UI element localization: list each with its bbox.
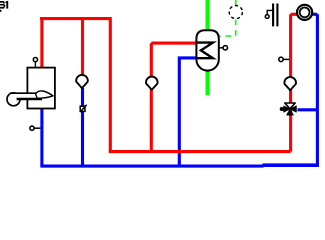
return pipe: from tank coil [179, 58, 196, 166]
pump P2 [146, 77, 158, 90]
boiler top sensor [34, 62, 36, 68]
mixing valve: top port (hollow triangle) [285, 103, 295, 109]
supply pipe: drop to boiler [40, 19, 43, 68]
return pipe: from pump P1 through check valve [81, 88, 84, 166]
cold/fresh water pipe: out of tank bottom (green) [206, 71, 210, 95]
room wall symbol [272, 4, 274, 27]
supply pipe: bottom header [109, 150, 291, 153]
burner flame [36, 91, 53, 98]
burner tube (dark bar) [17, 98, 42, 101]
room sensor [267, 10, 272, 14]
mixing valve: bottom port [287, 109, 294, 115]
supply pipe: riser through pump P2 [150, 43, 153, 152]
label S1 (clipped at left edge) [0, 1, 8, 9]
burner tube top edge [10, 92, 38, 94]
cold/fresh water pipe: into tank top (green) [206, 0, 210, 31]
flow sensor (right riser) [284, 58, 290, 60]
return pipe: right drop from consumer [316, 14, 319, 167]
boiler body [27, 68, 55, 109]
return pipe: stub from consumer circle [312, 13, 317, 16]
supply pipe: long right drop [109, 17, 112, 152]
storage tank [196, 30, 218, 70]
supply pipe: to tank coil [151, 42, 196, 45]
supply pipe: stub to consumer circle [291, 13, 297, 16]
heat consumer (double circle) [297, 5, 312, 20]
pump P1 [76, 75, 88, 88]
return pipe: connector into mixing valve [297, 108, 317, 111]
supply pipe: top header (hot) [40, 17, 111, 20]
clipped mark below label [0, 10, 2, 12]
supply pipe: right riser to consumer [289, 14, 292, 151]
supply pipe: drop to pump P1 [81, 19, 84, 76]
burner snout tube (white body) [10, 93, 37, 98]
return pipe: bottom header left [40, 165, 263, 168]
return pipe: boiler down [40, 109, 43, 166]
return pipe: bottom header right (overlap, thicker) [263, 163, 319, 167]
controller (dashed circle) [229, 6, 242, 19]
boiler return sensor (bottom left) [35, 127, 41, 129]
control line: dashed green above controller [235, 0, 237, 5]
mixing valve: left port [284, 106, 290, 112]
tank sensor [219, 47, 223, 49]
mixing valve: actuator knob [280, 107, 284, 111]
check valve [80, 106, 85, 111]
pump P3 [284, 77, 296, 90]
tank heat-exchanger coil [197, 43, 213, 59]
control line: dashed green controller to tank [219, 20, 236, 36]
burner blower volute [7, 93, 20, 106]
burner flame holder (tube end) [36, 93, 38, 98]
mixing valve: right port [290, 106, 296, 112]
